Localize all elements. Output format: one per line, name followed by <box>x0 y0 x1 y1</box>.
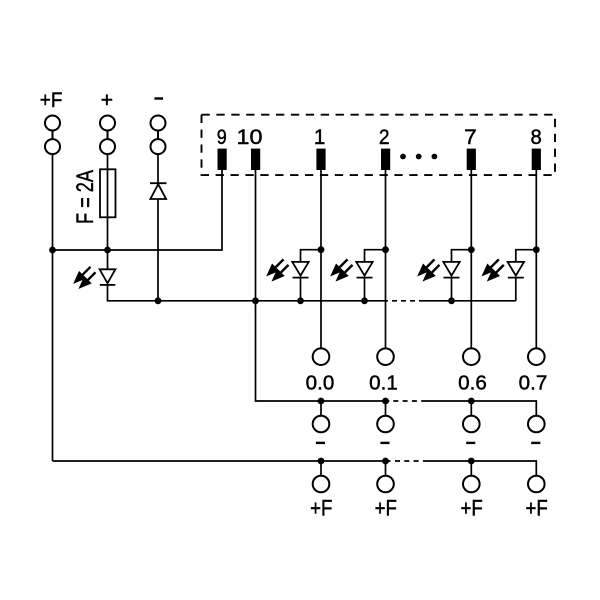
clamp 0.7 circle <box>528 348 545 365</box>
lower minus rail solid right part with corner down <box>426 401 536 416</box>
wire stub minus clamp col3 <box>470 401 472 416</box>
node junction LED 0.6 / mid rail <box>448 297 455 304</box>
wire stub +F clamp col2 <box>385 461 387 476</box>
wire pin 2 down to clamp 0.1 <box>385 170 387 349</box>
node junction +F rail col2 <box>382 458 389 465</box>
svg-text:+F: +F <box>525 496 547 521</box>
node junction pin8 / LED <box>533 246 540 253</box>
LED 0.0 arrows <box>269 259 289 279</box>
wire LED 0.0 top connector <box>301 250 322 262</box>
svg-text:7: 7 <box>464 125 477 149</box>
node junction - column / mid rail <box>155 297 162 304</box>
svg-text:+F: +F <box>375 496 397 521</box>
wire LED 0.1 top connector <box>365 250 386 262</box>
+F rail solid left part <box>53 460 391 462</box>
svg-text:10: 10 <box>237 125 263 149</box>
svg-text:+F: +F <box>40 88 63 112</box>
wire LED 0.6 top connector <box>452 250 472 262</box>
node junction pin7 / LED <box>468 246 475 253</box>
clamp 0.1 circle <box>377 348 394 365</box>
node junction lower minus rail col2 <box>382 398 389 405</box>
node junction lower minus rail col1 <box>318 398 325 405</box>
wire +F vertical down to +F rail <box>52 154 54 461</box>
LED 0.6 arrows <box>420 259 440 279</box>
wire stub minus clamp col1 <box>320 401 322 416</box>
LED 0.1 arrows <box>333 259 353 279</box>
wire LED 0.7 down to mid rail corner <box>515 278 517 301</box>
+F rail solid right part with corner down <box>427 461 536 476</box>
diode D1 (reverse polarity protection) <box>150 183 167 199</box>
wire LED 0.1 down to mid rail <box>364 278 366 301</box>
+F clamp circle col1 <box>313 476 330 493</box>
node junction LED 0.1 / mid rail <box>361 297 368 304</box>
minus label col4 <box>531 442 540 444</box>
wire - vertical down to mid rail <box>157 154 159 301</box>
pin 2 contact <box>381 149 390 170</box>
node junction +F rail col3 <box>468 458 475 465</box>
terminal + double circle <box>100 116 115 155</box>
node junction lower minus rail col3 <box>468 398 475 405</box>
LED 0.7 arrows <box>484 259 504 279</box>
wire + vertical through fuse down to LED <box>107 154 109 269</box>
svg-text:+F: +F <box>310 496 332 521</box>
minus label col2 <box>380 442 389 444</box>
terminal +F double circle <box>45 116 60 155</box>
clamp 0.0 circle <box>313 348 330 365</box>
svg-text:0.6: 0.6 <box>458 372 487 394</box>
wire LED 0.7 top connector <box>516 250 537 262</box>
node junction pin2 / LED <box>382 246 389 253</box>
minus label col1 <box>316 442 325 444</box>
power LED arrows <box>76 267 96 287</box>
svg-text:0.0: 0.0 <box>306 372 335 394</box>
wire power LED down to mid rail corner <box>108 285 159 301</box>
wire stub +F clamp col3 <box>470 461 472 476</box>
svg-text:+: + <box>101 88 113 112</box>
svg-text:F = 2A: F = 2A <box>72 170 99 224</box>
svg-text:0.1: 0.1 <box>369 372 398 394</box>
wire stub +F clamp col1 <box>320 461 322 476</box>
pin 8 contact <box>532 149 541 170</box>
terminal - double circle <box>151 116 166 155</box>
pin 7 contact <box>467 149 476 170</box>
LED 0.1 symbol <box>356 262 372 278</box>
lower minus rail dashed continuation <box>393 400 426 402</box>
+F clamp circle col3 <box>463 476 480 493</box>
wire pin 8 down to clamp 0.7 <box>535 170 537 349</box>
node junction pin10 / mid rail <box>252 297 259 304</box>
terminal - label <box>154 97 163 99</box>
wire pin 10 down to lower minus rail <box>256 170 390 401</box>
minus clamp circle col2 <box>377 416 394 433</box>
node junction +F / top rail <box>49 247 56 254</box>
clamp 0.6 circle <box>463 348 480 365</box>
wire LED 0.6 down to mid rail <box>451 278 453 301</box>
ellipsis dots between pin 2 and pin 7 <box>400 154 437 160</box>
minus label col3 <box>466 442 475 444</box>
wire pin 9 down and left along top rail <box>53 170 223 250</box>
LED 0.0 symbol <box>292 262 308 278</box>
+F clamp circle col4 <box>528 476 545 493</box>
svg-text:9: 9 <box>217 125 227 149</box>
svg-text:0.7: 0.7 <box>519 372 548 394</box>
dashed module outline box <box>202 115 556 175</box>
wire LED 0.0 down to mid rail <box>300 278 302 301</box>
LED 0.7 symbol <box>508 262 524 278</box>
mid minus rail dashed continuation <box>392 300 420 302</box>
mid minus rail solid right part <box>420 300 516 302</box>
pin 9 contact <box>218 149 227 170</box>
fuse F1 rectangle <box>100 169 116 217</box>
svg-text:2: 2 <box>379 125 390 149</box>
+F clamp circle col2 <box>377 476 394 493</box>
wire pin 1 down to clamp 0.0 <box>320 170 322 349</box>
svg-text:1: 1 <box>314 125 326 149</box>
minus clamp circle col3 <box>463 416 480 433</box>
node junction +F rail col1 <box>318 458 325 465</box>
mid minus rail solid left part <box>158 300 388 302</box>
minus clamp circle col4 <box>528 416 545 433</box>
node junction LED 0.0 / mid rail <box>297 297 304 304</box>
LED 0.6 symbol <box>443 262 459 278</box>
wire stub minus clamp col2 <box>385 401 387 416</box>
power LED (green) symbol <box>100 269 116 285</box>
minus clamp circle col1 <box>313 416 330 433</box>
node junction + / top rail <box>104 247 111 254</box>
svg-text:+F: +F <box>460 496 482 521</box>
pin 10 contact <box>251 149 260 170</box>
+F rail dashed continuation <box>395 460 427 462</box>
wire pin 7 down to clamp 0.6 <box>470 170 472 349</box>
pin 1 contact <box>316 149 325 170</box>
node junction pin1 / LED <box>318 246 325 253</box>
svg-text:8: 8 <box>530 125 541 149</box>
